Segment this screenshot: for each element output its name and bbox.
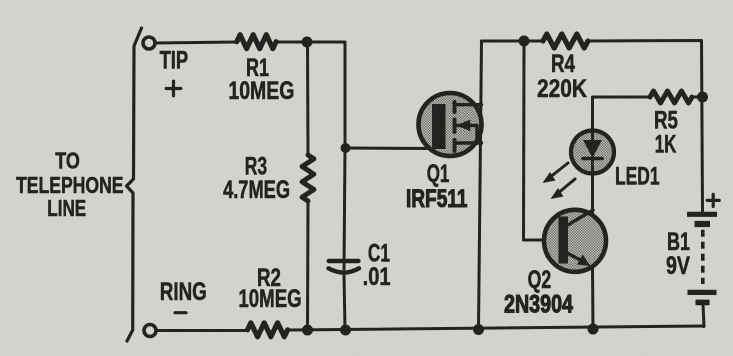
Q2 base bar bbox=[559, 217, 569, 264]
wire R5 left to LED anode bbox=[593, 97, 651, 132]
node junction dot Q1 source bbox=[473, 324, 484, 335]
LED1 cathode bar bbox=[583, 157, 602, 161]
transistor Q2 body circle bbox=[544, 210, 606, 272]
Q1 source link bbox=[455, 141, 482, 144]
Q1 drain link bbox=[455, 103, 482, 106]
wire Q1 drain-source vertical bbox=[479, 41, 482, 330]
node junction dot top-left rail bbox=[302, 37, 313, 48]
wire LED cathode to Q2 collector bbox=[591, 173, 594, 213]
capacitor C1 bottom lead bbox=[344, 274, 345, 330]
LED1 light arrow 2 bbox=[557, 179, 575, 194]
LED1 inner lead bbox=[591, 158, 594, 173]
transistor Q1 MOSFET body circle bbox=[419, 93, 482, 156]
node RING terminal bbox=[144, 325, 156, 337]
capacitor C1 top lead bbox=[344, 148, 345, 269]
capacitor C1 bbox=[329, 261, 360, 273]
wire battery negative lead bbox=[703, 304, 704, 327]
resistor R2 bbox=[248, 323, 288, 337]
wire R3 bottom lead bbox=[306, 201, 310, 330]
node junction dot Q2 emitter bbox=[588, 324, 599, 335]
battery internal dashed line bbox=[701, 230, 705, 284]
wire R1 to corner bbox=[276, 42, 345, 148]
node junction dot gate node bbox=[341, 143, 351, 153]
resistor R5 bbox=[650, 91, 692, 103]
battery B1 plates bbox=[687, 214, 717, 302]
node junction dot C1 bottom bbox=[340, 325, 351, 336]
wire R4 to right corner bbox=[588, 41, 703, 212]
resistor R1 bbox=[237, 35, 276, 49]
Q1 gate bar bbox=[432, 104, 446, 149]
LED1 anode triangle bbox=[583, 140, 602, 158]
Q2 collector diagonal bbox=[566, 210, 593, 226]
brace to telephone line bbox=[127, 28, 142, 341]
wire Q2 emitter to bottom rail bbox=[591, 269, 595, 329]
wire bottom rail left bbox=[156, 329, 248, 332]
wire R5 right lead bbox=[692, 96, 703, 99]
Q1 body line with arrow bbox=[457, 124, 478, 127]
Q1 channel stubs bbox=[453, 102, 457, 151]
LED LED1 circle bbox=[571, 131, 614, 174]
wire top-right rail bbox=[482, 40, 544, 43]
wire Q2 base vertical bbox=[524, 41, 560, 240]
node junction dot R3 bottom bbox=[302, 325, 313, 336]
wire TIP to R1 bbox=[155, 42, 237, 43]
node junction dot R5 right bbox=[697, 92, 708, 103]
label TIP plus sign bbox=[166, 87, 181, 90]
resistor R4 bbox=[543, 34, 588, 48]
node junction dot Q2 base node bbox=[519, 36, 530, 47]
node TIP terminal bbox=[143, 37, 155, 49]
label RING minus sign bbox=[175, 311, 186, 314]
Q2 emitter diagonal with arrow bbox=[566, 253, 584, 263]
wire R3 top lead bbox=[306, 42, 310, 155]
wire bottom rail right bbox=[289, 326, 704, 330]
label battery plus sign bbox=[707, 199, 719, 202]
LED1 light arrow 1 bbox=[549, 163, 568, 178]
resistor R3 bbox=[302, 155, 314, 201]
wire gate node to Q1 gate bbox=[346, 147, 434, 151]
